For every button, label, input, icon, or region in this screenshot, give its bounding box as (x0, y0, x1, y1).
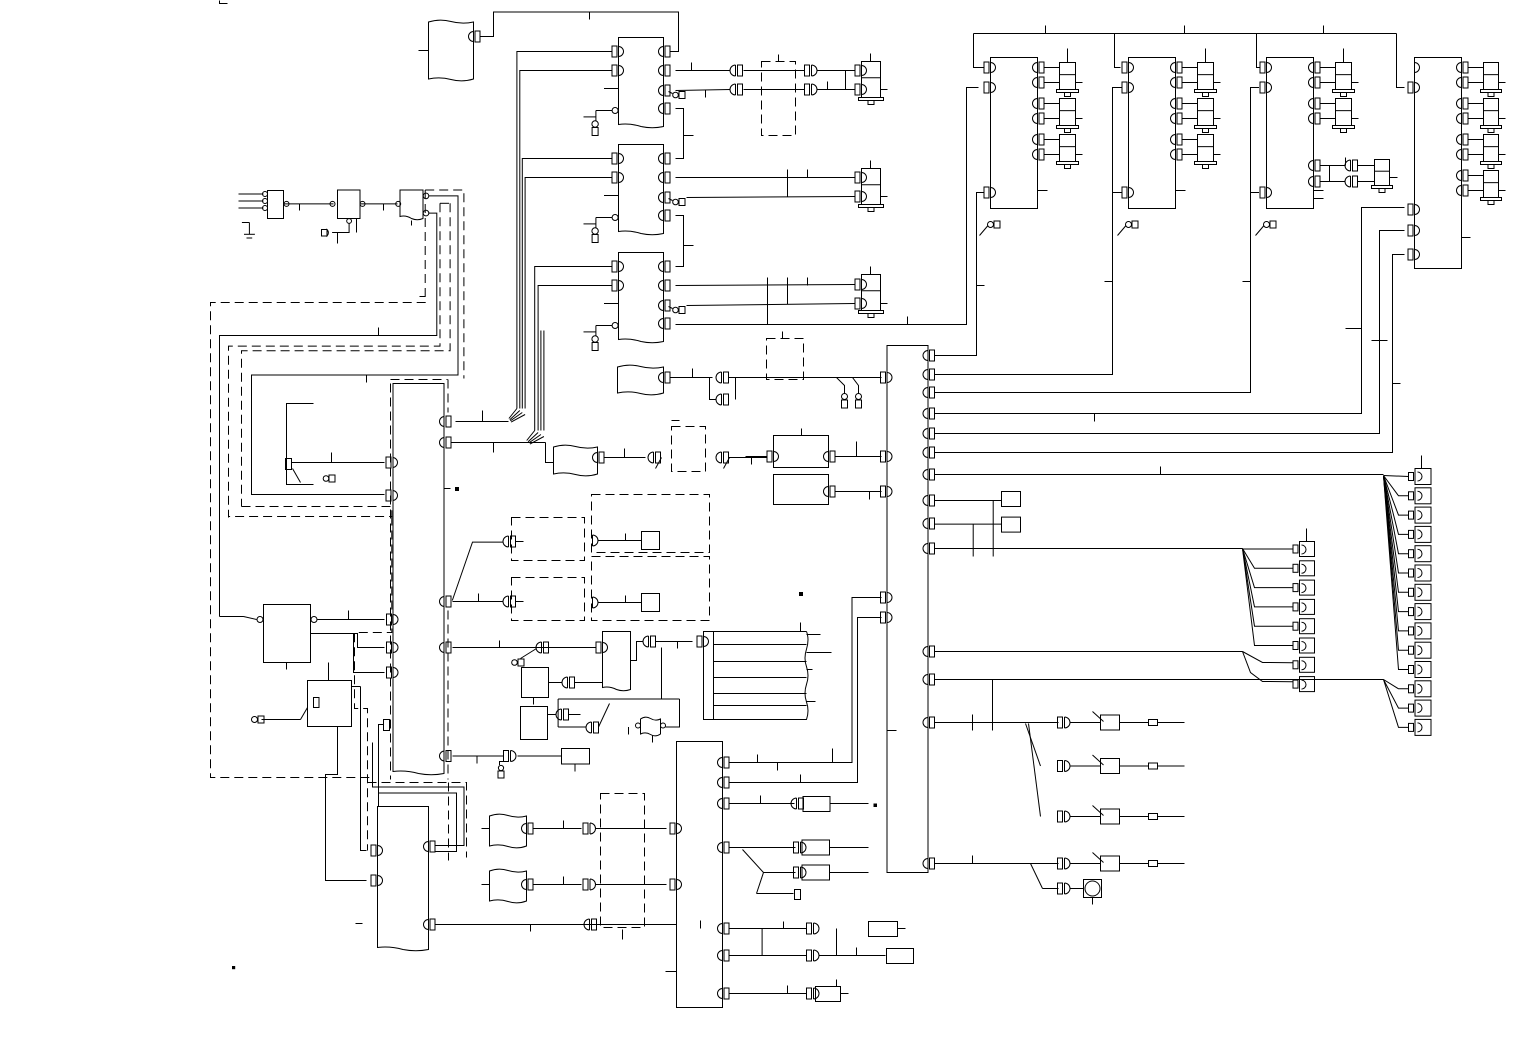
M3 motor stick (1343, 49, 1345, 63)
row y928 (701, 921, 837, 956)
left stack fan (1243, 549, 1293, 646)
device DV9 (816, 980, 849, 1002)
connector CN-R5 (794, 867, 807, 878)
CN3 left pin 9 (387, 667, 399, 678)
lamp LP1 (1071, 880, 1102, 905)
M1 bottom pin (984, 187, 996, 198)
CN4 left pin2 (371, 875, 383, 886)
DR1 lamp (642, 532, 660, 550)
wire J1 to IC U1 pin1 (481, 12, 679, 52)
U3 right pin 2 (659, 280, 671, 291)
connector CN-R4 (794, 842, 807, 853)
U1 right pin 1 (659, 46, 671, 57)
switch SW3 (1093, 806, 1120, 825)
wire U2.4 to U3.1 (676, 216, 694, 267)
terminal R6 (795, 890, 801, 900)
bus L5 dashed (425, 190, 464, 379)
CN3 left pin 10 (384, 720, 390, 731)
dot c (233, 967, 235, 969)
module M6 (774, 475, 829, 505)
M2 left pin1 (1122, 62, 1134, 73)
wire U1.4 to U2.1 (676, 109, 694, 159)
harness bundle A (517, 52, 612, 409)
connector CN-C4 (584, 919, 597, 930)
U1 right pin 2 (659, 65, 671, 76)
module M2 (1129, 58, 1176, 209)
ecu box E1 (603, 632, 631, 691)
wire CB13 switch row (935, 680, 1059, 731)
BB right pin3 (718, 798, 730, 809)
remote module box J1 (419, 20, 474, 81)
terminal TU3 (669, 307, 686, 314)
switch S1 contact (286, 453, 385, 483)
terminal TU2 (669, 199, 686, 206)
U2 ground lead (584, 196, 619, 229)
CN3 left pin 7 (387, 614, 399, 625)
K2 coil mark (314, 698, 320, 708)
dashed box DB4 (601, 794, 645, 940)
wire U1.3 row (676, 90, 731, 98)
wire CB7 to right stack (935, 467, 1384, 475)
wire W-k2b (361, 687, 367, 851)
CN4 left pin1 (371, 845, 383, 856)
motor MB (855, 161, 888, 212)
U1 left pin 1 (612, 46, 624, 57)
wire K1-K2 (328, 663, 330, 681)
U2 left pin 1 (612, 153, 624, 164)
wire CB3 to M3 (935, 88, 1260, 393)
connector SW1-c (1058, 717, 1071, 728)
CB right pin 10 (923, 543, 935, 554)
module M3 (1267, 58, 1314, 209)
top corner mark (220, 1, 228, 4)
pin J1-1 (469, 31, 480, 42)
CB right pin 8 (923, 495, 935, 506)
M4 right tick (1462, 237, 1471, 239)
relay K2 (308, 681, 352, 727)
M3 bottom tick (1314, 190, 1324, 192)
option sq1 (1002, 492, 1021, 507)
connector CN-P6 (500, 751, 517, 766)
U3 right pin 4 (659, 318, 670, 329)
M3 bottom tick (1314, 198, 1324, 200)
wire CB5 to M4b (935, 231, 1405, 434)
CB right pin 11 (923, 646, 935, 657)
B2 pin (593, 449, 646, 464)
U1 left pin 2 (612, 65, 624, 76)
connector CN-L (586, 722, 598, 733)
wire CB6 to M4c (935, 255, 1405, 453)
M6 pin (824, 486, 882, 500)
dot a (456, 488, 459, 491)
wire CB14 switch row (935, 856, 1059, 864)
row y803 (730, 796, 795, 804)
pin CN3-L3 (386, 490, 398, 501)
connector SW3-c (1058, 811, 1071, 822)
A3 pin b (423, 210, 429, 216)
ground GND1 (242, 223, 255, 239)
switch SW1 (1093, 712, 1120, 731)
main harness connector CB (887, 346, 928, 873)
loop circuit (558, 648, 679, 735)
M4 left pin3 (1408, 225, 1420, 236)
wire U2.3 row (687, 178, 855, 198)
CN4 right pin1 (424, 841, 436, 852)
wire DT1 rows (744, 71, 805, 90)
BB edge tick (666, 971, 677, 973)
CN3 right pin 1 (440, 416, 452, 427)
bus drop M2 (1115, 34, 1121, 68)
right stack fan A (1384, 476, 1409, 670)
dashed path P1 (229, 507, 392, 517)
wire CN4 to BB (436, 925, 677, 932)
CB right pin 1 (923, 350, 935, 361)
device DV7 (869, 922, 906, 937)
switch SW2 (1093, 755, 1120, 774)
connector CN-B2 (648, 452, 661, 469)
wire CB10 to left stack (935, 548, 1243, 550)
left stack ticks (1306, 529, 1308, 542)
CB right pin 2 (923, 369, 935, 380)
connector CN-R9 (807, 988, 820, 999)
M3 low motor (1358, 160, 1398, 193)
M2 bottom pin (1122, 187, 1134, 198)
terminal E3 (592, 336, 598, 351)
DL1 pin (452, 536, 523, 601)
wire CB11 (935, 651, 1243, 653)
connector CN-B1 (710, 372, 762, 405)
switch S1 frame (287, 404, 314, 485)
pin BB-L2 (670, 879, 682, 890)
U3 left pin 1 (612, 261, 624, 272)
CB right pin 9 (923, 518, 935, 529)
connector SW4-c (1058, 858, 1071, 869)
BB right pin6 (718, 950, 730, 961)
bus drop M3 (1257, 34, 1260, 68)
wire CB1 to M1 (935, 193, 985, 356)
wire CB4 to M4a (935, 208, 1405, 422)
wire A2-A3 (360, 201, 401, 210)
dashed box DR2 (592, 557, 710, 621)
left stack low wires (1243, 652, 1293, 682)
connector CN-R7 (807, 923, 820, 934)
remote box B1 (618, 365, 664, 395)
wire W-cn3b (379, 725, 384, 807)
M4 left pin2 (1408, 204, 1420, 215)
wire CB2 to M2 (935, 88, 1122, 375)
wire CB9 (935, 523, 1002, 525)
dot e (874, 804, 877, 807)
M3 left pin2 (1260, 82, 1272, 93)
connector SW2-c (1058, 761, 1071, 772)
CB inner tick (887, 730, 897, 732)
terminal TM3 (1256, 221, 1277, 236)
M3 low connectors (1345, 160, 1357, 187)
sensor box A2 (338, 190, 361, 219)
remote box B2 (554, 445, 598, 476)
U2 right pin 1 (659, 153, 671, 164)
connector CN-A2 (805, 65, 818, 95)
pin RB-1 (697, 636, 708, 647)
U2 left pin 2 (612, 172, 624, 183)
dashed box DR1 (592, 495, 710, 553)
wire CN4 loop b (379, 793, 457, 852)
C2 pin (522, 877, 582, 891)
connector CN-A1 (730, 65, 743, 95)
CB right pin 4 (923, 408, 935, 419)
IC U2 (619, 145, 664, 235)
dashed box DL2 (512, 578, 585, 621)
motor MC (855, 267, 888, 318)
U2 right pin 3 (659, 192, 671, 203)
DR1 lamp wire (593, 534, 642, 547)
junction v1 (973, 501, 993, 557)
row y955 (730, 948, 886, 956)
CN3 right pin 5 (440, 642, 452, 653)
M4 motors (1457, 62, 1506, 205)
CB right pin 14 (923, 858, 935, 869)
dashed box DL1 (512, 518, 585, 561)
E2 link (549, 677, 603, 688)
B1 pin (659, 369, 713, 384)
terminal TK2 (252, 708, 308, 724)
dashed box DT1 (762, 55, 796, 136)
BB right pin7 (718, 988, 730, 999)
terminal E1 (592, 121, 598, 136)
CB right pin 3 (923, 387, 935, 398)
dot b (800, 593, 803, 596)
IC U3 (619, 253, 664, 343)
fan F1 (1026, 724, 1041, 817)
A3 pin a (423, 193, 429, 199)
CN3 right pin 4 (440, 596, 452, 607)
wire U3.2 row (676, 278, 855, 286)
wire K1 to CN3 (318, 611, 385, 620)
dashed box DB1 (767, 332, 804, 380)
M4 left pin0 (1415, 63, 1420, 73)
DR2 lamp wire (593, 596, 642, 609)
pin CN3-L1 (386, 457, 398, 468)
terminal TB1a (842, 394, 848, 409)
motor MA (855, 54, 888, 105)
junction box BB (677, 742, 723, 1008)
U1 right pin 3 (659, 85, 671, 96)
dashed path P2 (355, 517, 392, 851)
U3 left pin 2 (612, 280, 624, 291)
row y993 (730, 986, 807, 994)
U1 ground lead (584, 89, 619, 122)
pin CB-L1 (881, 372, 893, 383)
right connector stack (1409, 469, 1432, 736)
junction box CN4 (378, 807, 429, 951)
terminal SW4-t (1071, 861, 1185, 867)
terminal TE1 (512, 649, 537, 667)
module M1 (991, 58, 1038, 209)
wire U3 to M1 (676, 88, 979, 325)
wire K1c to CN3 pin (354, 634, 385, 673)
M4 left pin1 (1408, 82, 1420, 93)
M3 bottom pin (1260, 187, 1272, 198)
DR2 lamp (642, 594, 660, 612)
U1 right pin 4 (659, 103, 671, 114)
connector CN-E1 (536, 642, 549, 653)
terminal SW2-t (1071, 763, 1185, 769)
junction box CN3 (393, 384, 444, 775)
M3 low pins (1309, 158, 1346, 188)
pin CB-L3 (881, 486, 893, 497)
pin BB-L1 (670, 823, 682, 834)
U2 right pin 4 (659, 210, 671, 221)
connector LP-c (1058, 883, 1071, 894)
CB right pin 6 (923, 447, 935, 458)
U3 ground lead (584, 304, 619, 337)
M2 left pin2 (1122, 82, 1134, 93)
connector CN-E2 (643, 636, 693, 649)
fan F2 (1031, 864, 1059, 889)
dashed outline CN3 (391, 380, 449, 780)
M1 bottom tick (1038, 190, 1048, 192)
sensor box A3 (400, 190, 423, 226)
wire CB12 to right stack b (935, 679, 1384, 681)
wire CB8 (935, 500, 1002, 502)
M1 motors (1033, 62, 1083, 169)
wire M5 to CB (836, 442, 882, 457)
connector CN-C2 (482, 879, 667, 890)
U2 right pin 2 (659, 172, 671, 183)
terminal SW3-t (1071, 814, 1185, 820)
M3 motors (1309, 62, 1359, 133)
terminal TA (322, 219, 357, 244)
module M5 (774, 429, 829, 468)
connector CN-R3 (791, 798, 803, 809)
K1 bottom tick (286, 663, 288, 670)
resistor pack RP1 (704, 623, 832, 720)
C1 pin (522, 821, 582, 835)
device box DP6 (541, 749, 590, 772)
wire U2.2 row (676, 170, 855, 178)
wire U1.2 row (676, 63, 731, 71)
input leads (239, 192, 268, 211)
connector CN-B2b (716, 452, 768, 469)
BB right pin4 (718, 842, 730, 853)
pin CB-L2 (881, 451, 893, 462)
connector CN-C1 (482, 823, 667, 834)
CB right pin 13 (923, 717, 935, 728)
relay K1 (264, 605, 311, 663)
device DV4 (802, 840, 869, 855)
top bus (974, 26, 1397, 34)
M1 left pin1 (984, 62, 996, 73)
terminal SW1-t (1071, 720, 1185, 726)
connector CN-R8 (807, 950, 820, 961)
wire to motor MA (817, 71, 855, 90)
terminal TP6 (498, 765, 504, 778)
bus L1 solid (220, 213, 437, 616)
device DV5 (802, 865, 869, 880)
M4 left pin4 (1408, 249, 1420, 260)
CB right pin 12 (923, 674, 935, 685)
wire B1 to CB (729, 378, 882, 394)
BB right pin1 (718, 757, 730, 768)
relay K1 pins (220, 617, 318, 623)
right stack ticks (1421, 456, 1423, 469)
wire U3.3 row (687, 286, 855, 306)
wire BB2 to CB (730, 618, 882, 783)
CN3 right pin 2 (440, 437, 452, 448)
remote box C2 (490, 869, 527, 903)
bundle B fan to CN3 pin2 (444, 431, 554, 489)
CB right pin 7 (923, 469, 935, 480)
BB right pin2 (718, 777, 730, 788)
bundle A fan to CN3 pin1 (456, 409, 526, 423)
CN3 left pin 8 (387, 642, 399, 653)
outer dashed frame (211, 190, 426, 778)
pin CB-L5 (881, 612, 893, 623)
M2 bottom tick (1176, 190, 1186, 192)
M3 left pin1 (1260, 62, 1272, 73)
U3 right pin 3 (659, 300, 671, 311)
dashed path P3 (368, 783, 467, 861)
switch SW4 (1093, 853, 1120, 872)
harness bundle B (535, 267, 612, 431)
CN3 right pin 6 (440, 751, 452, 762)
E3 link (548, 709, 581, 720)
BB right pin5 (718, 923, 730, 934)
bus drop M1 (974, 34, 985, 68)
bus L2 dashed (229, 203, 441, 517)
option sq2 (1002, 517, 1021, 532)
remote box C1 (490, 814, 527, 848)
CN4 mark (356, 923, 363, 925)
aux box E2 (522, 668, 549, 705)
inline device D1 (636, 717, 666, 742)
bus L3 dashed (242, 203, 451, 506)
pin CB-L4 (881, 592, 893, 603)
aux box E3 (521, 707, 548, 740)
wire P6 to box (518, 755, 562, 757)
wire CN3p6 row (453, 756, 504, 764)
device DV3 (803, 797, 869, 812)
M2 motor stick (1205, 49, 1207, 63)
wire CN4 loop a (373, 743, 465, 846)
M1 left pin2 (984, 82, 996, 93)
CN4 right pin2 (424, 919, 436, 930)
terminal TS1 (323, 475, 335, 482)
DL2 pin (453, 594, 524, 608)
left connector stack (1293, 542, 1315, 692)
device DV8 (887, 949, 914, 964)
E1 pin in (453, 641, 608, 654)
wire K2 right (352, 686, 361, 688)
bus L4 solid (252, 196, 459, 495)
module M4 (1415, 58, 1462, 269)
row y847 fan (730, 848, 796, 894)
M5 pins (746, 451, 836, 465)
terminal TB1b (856, 394, 862, 409)
right stack fan B (1384, 680, 1409, 728)
terminal TU1 (669, 92, 686, 99)
bus drop M4 (1397, 34, 1405, 88)
terminal TM2 (1118, 221, 1139, 236)
IC U1 (619, 38, 664, 128)
terminal E2 (592, 228, 598, 243)
sensor box A1 (268, 191, 284, 219)
U3 right pin 1 (659, 261, 671, 272)
wire W-k2a (326, 727, 367, 881)
CB right pin 5 (923, 428, 935, 439)
wire A1-A2 (284, 201, 336, 210)
E1 out (631, 642, 644, 661)
